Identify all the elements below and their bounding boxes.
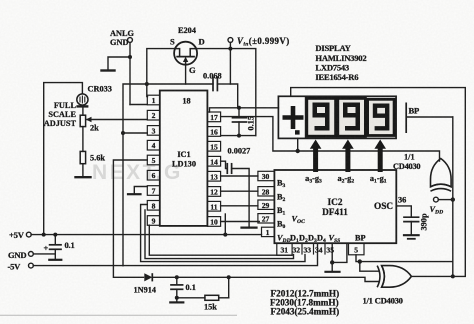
wire: display bottom riser: [297, 138, 299, 151]
texts display block: [315, 43, 419, 116]
IC1 right pin boxes 17-10: [207, 112, 220, 226]
thick arrows display to IC2: [310, 140, 386, 173]
transistor E204: [174, 42, 197, 65]
display BP bar: [405, 103, 407, 134]
IC1 body LD130: [160, 91, 208, 226]
XOR2 gate top right (vertical, pointing up): [430, 159, 451, 192]
wire: 2k wiper to pin2: [87, 119, 147, 121]
wire: pin17 top riser wire: [210, 108, 279, 112]
wire: GND terminal to cap: [33, 253, 55, 255]
wire: bottom net to 15k: [177, 297, 205, 299]
wire: Vin vertical: [230, 42, 237, 107]
wire: IC1 pin8 to IC2 pin32: [145, 210, 294, 259]
wire: ANLG GND to pin1: [130, 104, 147, 106]
IC2 inner labels: [277, 174, 406, 244]
wire: display BP bar to vertical: [407, 116, 453, 118]
wire: +5V rail: [31, 234, 261, 236]
display plus sign: [283, 106, 304, 129]
wire: ANLG GND vertical: [129, 43, 131, 105]
wire: 2k to 5.6k: [82, 127, 84, 152]
scan artifact line: [0, 314, 237, 316]
texts bottom: [134, 283, 403, 317]
wire: IC1 pin11 to IC2 pin29: [221, 205, 258, 207]
display cell borders: [307, 98, 394, 136]
capacitor 390p: [404, 216, 419, 218]
capacitor 0.15: [238, 108, 240, 117]
wire: IC1 pin9 to IC2 pin31: [149, 225, 292, 255]
wire: IC2 pin5 BP net: [356, 255, 453, 262]
IC1 left pin boxes 1-9: [147, 95, 160, 225]
capacitor 0.068 plates: [212, 78, 214, 91]
wire: diode to xor: [153, 277, 379, 281]
capacitor 0.0027: [221, 161, 228, 168]
resistor 15k: [205, 295, 219, 300]
wire: -5V rail: [33, 265, 123, 267]
wire: pin5 to -5V riser to diode: [113, 160, 147, 277]
wire: XOR1 output to right edge up and over to display plus: [291, 88, 466, 277]
wire: IC1 pin12 to IC2 pin28: [221, 190, 258, 192]
wire: pin7 ground: [134, 187, 147, 194]
diode 1N914: [144, 273, 152, 281]
wire: XOR2 Vdd stub: [438, 199, 453, 201]
wire: IC1 pin10 to IC2 pin27: [221, 221, 260, 223]
IC1 pin numbers: [152, 96, 218, 227]
display digit 9 (first): [313, 103, 390, 131]
texts right: [393, 153, 443, 231]
wire: IC2 pin35 ground net: [332, 243, 347, 262]
potentiometer CR033 lamp: [76, 94, 88, 107]
ground bar ANLG: [102, 69, 115, 71]
ground below 0.1 bottom: [176, 298, 178, 302]
capacitor 0.1 left: [54, 235, 56, 245]
wire: frame +5V to CR033: [44, 83, 83, 235]
wire: -5V net to IC2 pin34: [123, 243, 318, 265]
wire: pin10 riser to +5V: [224, 214, 226, 235]
wire: CR033 to 2k: [82, 107, 84, 116]
wire: OSC pin36 to 390p: [396, 206, 411, 217]
IC2 bottom pin boxes 31-35 and 5: [277, 243, 364, 255]
terminal circles: [26, 38, 438, 268]
wire: D lead across: [198, 49, 256, 136]
IC2 body DF411: [274, 170, 396, 243]
resistor 2k with wiper arrow: [80, 115, 85, 126]
capacitor 0.1 bottom: [176, 277, 178, 284]
wire: pin17 to display bottom long wire: [221, 117, 440, 161]
wire: IC1 pin13 to IC2 pin30: [221, 175, 258, 177]
wire: ground branch: [108, 57, 130, 70]
wire: pin16 to D bottom: [221, 135, 256, 137]
IC2 left pin boxes: [258, 171, 275, 236]
wire: 0.068 right lead: [217, 83, 230, 85]
wire: pin3 branch: [123, 132, 147, 134]
wire: 5.6k ground: [82, 164, 84, 177]
wire: BP vertical: [452, 117, 454, 276]
display outer box: [278, 96, 396, 138]
texts left power: [8, 230, 75, 272]
wire: S lead: [147, 49, 174, 97]
wire: IC1 pin8 stub to IC2 pin33: [141, 205, 305, 262]
wire: G lead and bus: [185, 66, 187, 85]
XOR1 gate bottom right: [377, 266, 411, 288]
wire: 0.0027 right lead down to bar: [232, 169, 250, 227]
texts top: [44, 26, 290, 163]
wire: pin5 drop to XOR1 input: [360, 262, 379, 272]
resistor 5.6k: [80, 151, 85, 163]
